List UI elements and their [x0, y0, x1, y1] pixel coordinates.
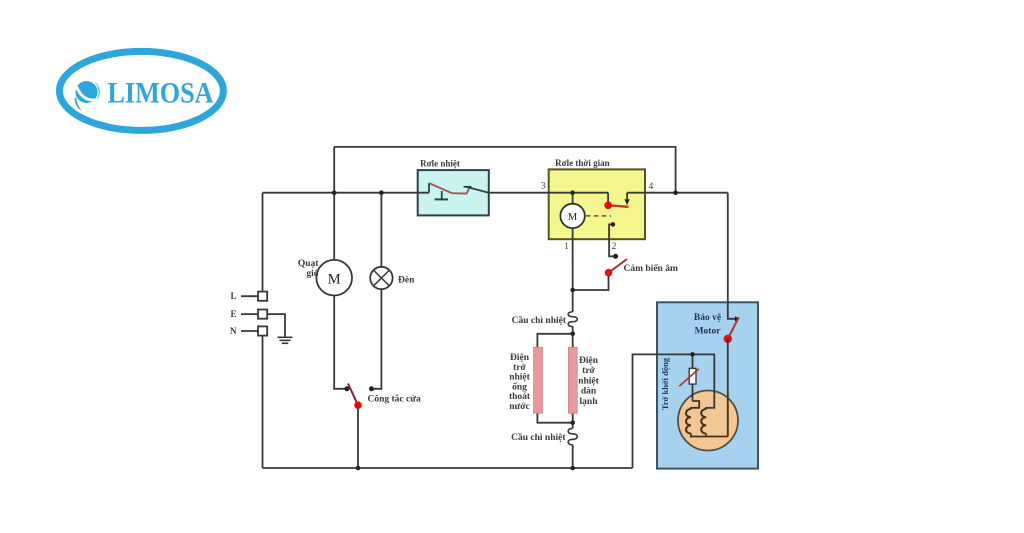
- contact lamp side: [369, 386, 374, 391]
- svg-text:M: M: [568, 212, 578, 223]
- LIMOSA logo: [59, 51, 223, 130]
- lamp (Den): [370, 267, 392, 289]
- svg-text:Motor: Motor: [695, 327, 722, 337]
- svg-text:gió: gió: [306, 269, 318, 279]
- svg-text:nhiệt: nhiệt: [509, 373, 530, 383]
- svg-text:Rơle thời gian: Rơle thời gian: [555, 158, 609, 168]
- svg-text:3: 3: [541, 182, 546, 192]
- wire main row: [263, 192, 430, 194]
- junction node heater bottom: [570, 420, 575, 425]
- svg-text:Cầu chì nhiệt: Cầu chì nhiệt: [512, 315, 567, 326]
- junction node door switch: [356, 466, 361, 471]
- timer switch wire to contact: [607, 193, 609, 203]
- svg-text:lạnh: lạnh: [580, 397, 599, 407]
- label Dien tro nhiet ong thoat nuoc: [509, 353, 531, 412]
- timer pin2 wire: [609, 224, 616, 256]
- wire motor protector drop: [728, 193, 736, 319]
- wire fan to door switch: [334, 296, 347, 389]
- timer switch red arm: [608, 205, 628, 207]
- dashed link: [586, 215, 611, 217]
- wire overload to winding: [727, 339, 729, 392]
- junction node fan: [332, 190, 337, 195]
- heater resistor left (Dien tro nhiet ong thoat nuoc): [534, 347, 543, 413]
- wire timer pin4 to motor protector: [627, 192, 728, 194]
- wire thermal relay to timer: [489, 192, 608, 194]
- wire fan branch top: [333, 147, 335, 260]
- wire mid vertical lower: [572, 445, 574, 468]
- thermal relay bimetal symbol: [429, 183, 489, 199]
- branch to left heater: [537, 334, 572, 423]
- svg-text:dàn: dàn: [581, 387, 597, 397]
- thermal fuse bottom (Cau chi nhiet): [568, 428, 577, 444]
- fan motor (Quat gio): [316, 260, 352, 296]
- junction node bottom rail mid: [570, 466, 575, 471]
- svg-text:Rơle nhiệt: Rơle nhiệt: [420, 159, 460, 169]
- svg-text:Cảm biến âm: Cảm biến âm: [624, 263, 678, 274]
- heater resistor right (Dien tro nhiet dan lanh): [568, 347, 577, 413]
- start resistor PTC (Tro khoi dong): [692, 354, 694, 401]
- timer relay box (Role thoi gian): [549, 169, 645, 239]
- label Dien tro nhiet dan lanh: [578, 356, 599, 407]
- door switch (Cong tac cua): [348, 384, 358, 406]
- svg-text:Trở khởi động: Trở khởi động: [660, 357, 670, 410]
- svg-text:L: L: [230, 291, 236, 301]
- svg-text:Đèn: Đèn: [398, 276, 415, 286]
- terminal L: [241, 295, 258, 297]
- motor circle: [678, 391, 738, 451]
- wire right riser to motor box: [633, 354, 715, 468]
- svg-text:ống: ống: [512, 381, 527, 392]
- ground: [278, 337, 293, 343]
- svg-text:Cầu chì nhiệt: Cầu chì nhiệt: [511, 432, 566, 443]
- svg-text:1: 1: [564, 242, 569, 252]
- thermal fuse top (Cau chi nhiet): [568, 312, 577, 327]
- svg-text:N: N: [230, 326, 237, 336]
- wire mid vertical upper: [572, 290, 574, 312]
- junction node lamp: [379, 190, 384, 195]
- relay thermal box (Role nhiet): [418, 170, 489, 215]
- wire lamp to door switch: [372, 289, 382, 389]
- main winding: [691, 401, 699, 409]
- junction node sensor return: [570, 288, 575, 293]
- junction node pin4: [673, 190, 678, 195]
- sensor switch (Cam bien am): [609, 259, 627, 273]
- terminal N: [241, 330, 258, 332]
- wire mid vertical center: [572, 326, 574, 428]
- junction node start resistor: [690, 352, 695, 357]
- svg-text:4: 4: [649, 182, 654, 192]
- svg-text:nhiệt: nhiệt: [578, 376, 599, 386]
- wire bottom rail: [263, 467, 633, 469]
- svg-text:Quạt: Quạt: [298, 259, 319, 269]
- svg-text:thoát: thoát: [509, 392, 531, 402]
- terminal E: [241, 313, 258, 315]
- wire top bypass: [334, 147, 675, 193]
- svg-text:E: E: [230, 309, 236, 319]
- contact fan side: [344, 386, 349, 391]
- svg-text:trở: trở: [513, 363, 526, 373]
- wire timer pin1 down: [572, 228, 574, 291]
- wire E to ground: [267, 314, 285, 336]
- timer motor M: [572, 193, 574, 204]
- svg-text:Điện: Điện: [579, 356, 599, 366]
- overload switch red arm: [728, 317, 739, 339]
- svg-text:Công tắc cửa: Công tắc cửa: [368, 394, 421, 405]
- svg-text:Bảo vệ: Bảo vệ: [694, 313, 721, 323]
- wire left rail top: [262, 193, 264, 292]
- wire N to bottom rail: [262, 336, 264, 468]
- svg-text:nước: nước: [509, 402, 529, 412]
- motor protector box (Bao ve Motor): [657, 302, 758, 468]
- wire lamp branch top: [380, 193, 382, 267]
- start winding: [701, 409, 706, 434]
- svg-text:2: 2: [612, 242, 617, 252]
- junction node timer M: [570, 190, 575, 195]
- svg-text:M: M: [328, 271, 341, 287]
- junction node heater top: [570, 332, 575, 337]
- svg-text:LIMOSA: LIMOSA: [108, 77, 214, 110]
- svg-text:Điện: Điện: [510, 353, 530, 363]
- svg-text:trở: trở: [582, 366, 595, 376]
- timer contact 4 drop with arrow: [626, 193, 628, 200]
